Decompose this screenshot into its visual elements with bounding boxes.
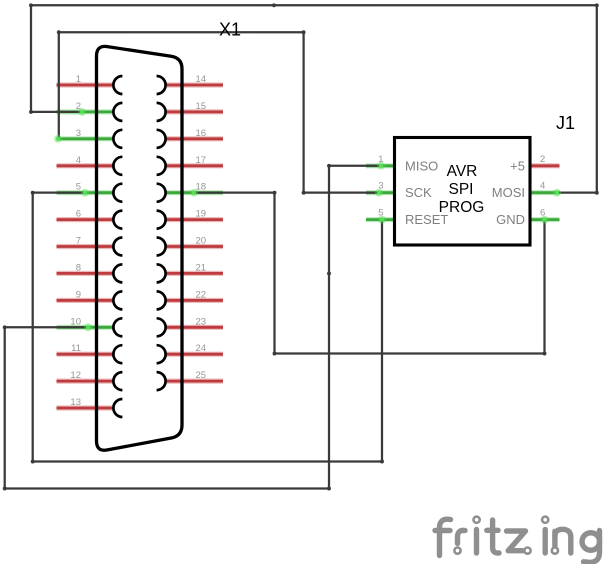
connected terminal highlight [78, 108, 86, 116]
logo ring [542, 517, 548, 523]
X1 pin 16 contact arc [157, 130, 166, 148]
X1 pin 10 contact arc [113, 318, 122, 336]
X1 pin 21 lead (unconnected, red) [166, 271, 223, 276]
X1 pin 11 contact arc [113, 345, 122, 363]
logo ring [524, 548, 530, 554]
svg-text:+5: +5 [510, 158, 525, 173]
wire bendpoint junction [543, 352, 547, 356]
J1 pin 3 lead SCK (connected, green) [366, 190, 395, 195]
wire bendpoint junction [272, 3, 276, 7]
wire bendpoint junction [327, 164, 331, 168]
X1 pin 22 lead (unconnected, red) [166, 298, 223, 303]
svg-text:19: 19 [196, 209, 207, 220]
svg-text:17: 17 [196, 155, 207, 166]
svg-text:3: 3 [76, 128, 81, 139]
X1 pin 23 lead (unconnected, red) [166, 325, 223, 330]
svg-text:10: 10 [70, 316, 81, 327]
wire bendpoint junction [57, 30, 61, 34]
svg-text:16: 16 [196, 128, 207, 139]
J1 pin 5 lead RESET (connected, green) [366, 217, 395, 222]
wire X1.2-J1.MOSI seg b (left riser up) [30, 5, 32, 112]
X1 pin 18 lead (connected, green) [166, 190, 223, 195]
svg-text:4: 4 [76, 155, 81, 166]
svg-text:SPI: SPI [449, 181, 474, 198]
X1 pin 17 contact arc [157, 157, 166, 175]
connected terminal highlight [541, 216, 549, 224]
wire X1.18-J1.GND seg d (riser up to GND) [543, 220, 545, 354]
svg-text:5: 5 [378, 208, 383, 219]
svg-text:13: 13 [70, 397, 81, 408]
svg-text:2: 2 [540, 154, 545, 165]
wire bendpoint junction [273, 191, 277, 195]
wire bendpoint junction [302, 191, 306, 195]
wire X1.3-J1.SCK seg c (riser down) [302, 32, 304, 192]
wire X1.10-J1.MISO seg f (to MISO pin) [329, 165, 381, 167]
svg-text:PROG: PROG [439, 199, 485, 216]
wire X1.10-J1.MISO seg e (riser up upper part) [328, 166, 330, 274]
X1 pin 6 lead (unconnected, red) [57, 217, 114, 222]
X1 pin 25 lead (unconnected, red) [166, 379, 223, 384]
svg-text:GND: GND [496, 212, 525, 227]
svg-text:15: 15 [196, 101, 207, 112]
wire bendpoint junction [31, 191, 35, 195]
X1 pin 25 contact arc [157, 372, 166, 390]
X1 pin 6 contact arc [113, 211, 122, 229]
X1 pin 14 contact arc [157, 76, 166, 94]
wire X1.3-J1.SCK seg a (riser up from pin3) [58, 32, 60, 139]
svg-text:J1: J1 [556, 113, 575, 133]
wire X1.2-J1.MOSI seg d (top run right part) [274, 4, 597, 6]
svg-text:9: 9 [76, 289, 81, 300]
X1 pin 5 contact arc [113, 184, 122, 202]
IC J1 AVR SPI PROG body [395, 138, 531, 246]
wire bendpoint junction [380, 460, 384, 464]
wire bendpoint junction [29, 110, 33, 114]
svg-text:8: 8 [76, 262, 81, 273]
X1 pin 9 contact arc [113, 291, 122, 309]
wire X1.18-J1.GND seg c (run right) [275, 352, 545, 354]
X1 pin 12 contact arc [113, 372, 122, 390]
X1 pin 11 lead (unconnected, red) [57, 352, 114, 357]
wire bendpoint junction [29, 3, 33, 7]
svg-text:3: 3 [378, 181, 383, 192]
X1 pin 8 contact arc [113, 264, 122, 282]
logo ring [552, 548, 558, 554]
X1 pin 10 lead (connected, green) [57, 325, 114, 330]
X1 pin 20 lead (unconnected, red) [166, 244, 223, 249]
X1 pin 15 contact arc [157, 103, 166, 121]
svg-text:MISO: MISO [405, 158, 438, 173]
wire bendpoint junction [327, 272, 331, 276]
svg-text:1: 1 [76, 74, 81, 85]
X1 pin 2 lead (connected, green) [57, 109, 114, 114]
wire X1.18-J1.GND seg a (pin18 rightwards) [194, 192, 275, 194]
wire bendpoint junction [3, 487, 7, 491]
wire X1.10-J1.MISO seg c (bottom run) [5, 487, 329, 489]
svg-text:23: 23 [196, 316, 207, 327]
X1 pin 24 contact arc [157, 345, 166, 363]
svg-text:SCK: SCK [405, 185, 432, 200]
X1 pin 20 contact arc [157, 238, 166, 256]
X1 pin 1 lead (unconnected, red) [57, 82, 114, 87]
J1 pin 6 lead GND (connected, green) [530, 217, 560, 222]
svg-text:6: 6 [540, 208, 545, 219]
X1 pin 5 lead (connected, green) [57, 190, 114, 195]
wire X1.5-J1.RESET seg b (riser down) [32, 193, 34, 462]
X1 pin 7 lead (unconnected, red) [57, 244, 114, 249]
wire X1.3-J1.SCK seg b (run under X1 label) [59, 31, 304, 33]
X1 pin 24 lead (unconnected, red) [166, 352, 223, 357]
connected terminal highlight [81, 189, 89, 197]
X1 pin 8 lead (unconnected, red) [57, 271, 114, 276]
X1 pin 1 contact arc [113, 76, 122, 94]
svg-text:20: 20 [196, 236, 207, 247]
svg-text:12: 12 [70, 370, 81, 381]
wire X1.18-J1.GND seg b (riser down) [273, 193, 275, 354]
wire X1.2-J1.MOSI seg e (right riser down) [596, 5, 598, 192]
J1 pin 4 lead MOSI (connected, green) [530, 190, 560, 195]
fritzing watermark logo [435, 519, 600, 562]
logo ring [474, 517, 480, 523]
svg-text:X1: X1 [219, 20, 241, 40]
svg-text:6: 6 [76, 209, 81, 220]
connected terminal highlight [377, 162, 385, 170]
connector X1 DB25 body outline [97, 46, 183, 450]
X1 pin 19 lead (unconnected, red) [166, 217, 223, 222]
svg-text:1: 1 [378, 154, 383, 165]
wire X1.5-J1.RESET seg a (pin5 to left riser) [33, 192, 85, 194]
X1 pin 9 lead (unconnected, red) [57, 298, 114, 303]
svg-text:22: 22 [196, 289, 207, 300]
wire X1.2-J1.MOSI seg f (to MOSI pin) [557, 192, 597, 194]
X1 pin 12 lead (unconnected, red) [57, 379, 114, 384]
wire X1.10-J1.MISO seg b (far-left riser down) [4, 327, 6, 488]
wire bendpoint junction [327, 487, 331, 491]
X1 pin 4 contact arc [113, 157, 122, 175]
wire bendpoint junction [31, 460, 35, 464]
wire X1.10-J1.MISO seg d (riser up lower part) [328, 274, 330, 489]
J1 pin 2 lead +5 (unconnected, red) [530, 163, 560, 168]
svg-text:7: 7 [76, 236, 81, 247]
X1 pin 3 contact arc [113, 130, 122, 148]
wire X1.5-J1.RESET seg d (riser up to RESET) [381, 220, 383, 462]
wire X1.10-J1.MISO seg a (pin10 to far-left riser) [5, 326, 88, 328]
X1 pin 22 contact arc [157, 291, 166, 309]
X1 pin 7 contact arc [113, 238, 122, 256]
wire bendpoint junction [595, 191, 599, 195]
svg-text:21: 21 [196, 262, 207, 273]
X1 pin 19 contact arc [157, 211, 166, 229]
svg-text:24: 24 [196, 343, 207, 354]
wire X1.2-J1.MOSI seg c (top run left part) [31, 4, 274, 6]
wire bendpoint junction [3, 325, 7, 329]
J1 pin 1 lead MISO (connected, green) [366, 163, 395, 168]
wire X1.2-J1.MOSI seg a (pin2 to left riser) [31, 111, 82, 113]
X1 pin 15 lead (unconnected, red) [166, 109, 223, 114]
wire X1.5-J1.RESET seg c (bottom run) [33, 460, 382, 462]
connected terminal highlight [84, 323, 92, 331]
wire bendpoint junction [302, 30, 306, 34]
X1 pin 3 lead (connected, green) [57, 136, 114, 141]
wire X1.3-J1.SCK seg d (to SCK pin) [304, 192, 379, 194]
svg-text:18: 18 [196, 182, 207, 193]
svg-text:2: 2 [76, 101, 81, 112]
X1 pin 2 contact arc [113, 103, 122, 121]
connected terminal highlight [54, 135, 62, 143]
wire bendpoint junction [595, 3, 599, 7]
connected terminal highlight [553, 189, 561, 197]
svg-text:4: 4 [540, 181, 545, 192]
svg-text:AVR: AVR [447, 163, 478, 180]
X1 pin 23 contact arc [157, 318, 166, 336]
X1 pin 21 contact arc [157, 264, 166, 282]
X1 pin 18 contact arc [157, 184, 166, 202]
X1 pin 13 contact arc [113, 399, 122, 417]
X1 pin 4 lead (unconnected, red) [57, 163, 114, 168]
X1 pin 13 lead (unconnected, red) [57, 405, 114, 410]
svg-text:11: 11 [71, 343, 81, 354]
wire bendpoint junction [273, 352, 277, 356]
X1 pin 17 lead (unconnected, red) [166, 163, 223, 168]
svg-text:14: 14 [196, 74, 207, 85]
connected terminal highlight [378, 216, 386, 224]
X1 pin 16 lead (unconnected, red) [166, 136, 223, 141]
connected terminal highlight [190, 189, 198, 197]
svg-text:MOSI: MOSI [492, 185, 525, 200]
connected terminal highlight [375, 189, 383, 197]
logo ring [454, 548, 460, 554]
svg-text:5: 5 [76, 182, 81, 193]
X1 pin 14 lead (unconnected, red) [166, 82, 223, 87]
svg-text:25: 25 [196, 370, 207, 381]
